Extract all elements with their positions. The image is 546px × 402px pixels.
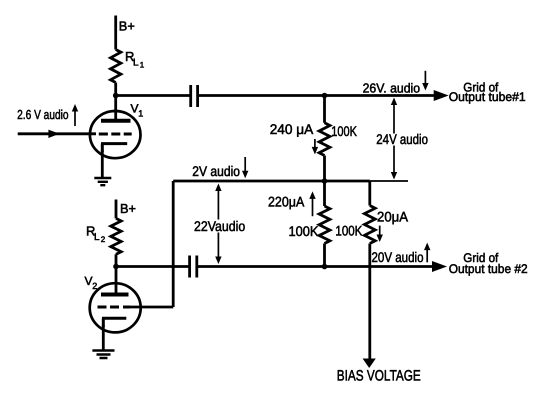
svg-text:Output tube#1: Output tube#1 xyxy=(449,90,526,104)
svg-text:1: 1 xyxy=(138,109,143,119)
svg-text:2: 2 xyxy=(92,281,97,291)
svg-text:100K: 100K xyxy=(335,223,363,239)
svg-text:L: L xyxy=(94,232,100,243)
svg-text:B+: B+ xyxy=(119,19,135,34)
svg-text:100K: 100K xyxy=(331,123,357,139)
svg-text:BIAS VOLTAGE: BIAS VOLTAGE xyxy=(337,367,421,384)
svg-text:240 μA: 240 μA xyxy=(270,121,314,137)
svg-text:22Vaudio: 22Vaudio xyxy=(194,218,245,234)
svg-text:20V audio: 20V audio xyxy=(372,249,424,265)
svg-text:B+: B+ xyxy=(120,201,136,216)
svg-text:220μA: 220μA xyxy=(268,194,305,210)
svg-text:24V audio: 24V audio xyxy=(376,131,428,147)
svg-text:100K: 100K xyxy=(289,223,320,239)
svg-text:2.6 V audio: 2.6 V audio xyxy=(17,107,69,122)
svg-text:L: L xyxy=(133,58,139,69)
svg-text:26V. audio: 26V. audio xyxy=(363,80,421,95)
svg-text:20μA: 20μA xyxy=(377,209,409,225)
svg-text:1: 1 xyxy=(140,61,145,70)
svg-text:Output tube #2: Output tube #2 xyxy=(449,262,528,276)
svg-text:2V audio: 2V audio xyxy=(192,163,240,179)
svg-text:2: 2 xyxy=(101,235,106,244)
